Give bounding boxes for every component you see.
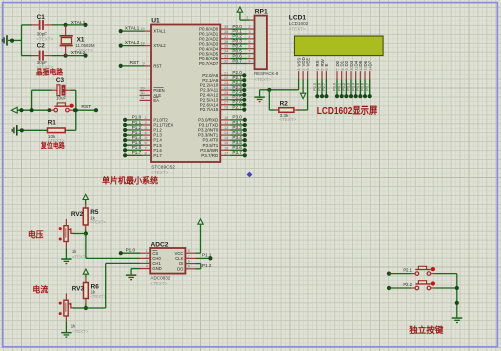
- resistor R5 1k: [83, 208, 106, 225]
- svg-text:4: 4: [248, 35, 250, 39]
- svg-text:8: 8: [340, 69, 344, 71]
- wire (voltage junction down to ADC CH0): [86, 234, 140, 259]
- resistor R2 3.3k: [275, 100, 299, 122]
- pin LCD VSS: [296, 58, 301, 79]
- potentiometer RV2: [59, 211, 89, 259]
- wire (C2 row left): [22, 55, 33, 57]
- power +5V (RP1 supply arrow): [237, 7, 242, 20]
- wire (pin to R6): [85, 278, 87, 283]
- pin LCD RW: [320, 58, 325, 79]
- wire (U1 pin 22 net P2.1): [202, 75, 246, 83]
- pin LCD D5: [358, 60, 363, 79]
- svg-text:<TEXT>: <TEXT>: [75, 48, 92, 53]
- svg-text:P0.7: P0.7: [365, 83, 369, 91]
- wire (R5 to wiper junction): [84, 225, 88, 236]
- svg-text:6: 6: [325, 69, 329, 71]
- svg-text:9: 9: [248, 60, 250, 64]
- pin ADC2 DO: [177, 265, 195, 272]
- svg-text:8: 8: [188, 249, 190, 253]
- svg-text:P2.7: P2.7: [232, 104, 242, 109]
- svg-text:14: 14: [224, 136, 228, 140]
- wire (RV2 bottom to ground): [65, 249, 67, 259]
- svg-text:18: 18: [140, 41, 144, 45]
- wire (U1 pin 13 net P3.3): [198, 130, 247, 138]
- display LCD1 LCD1602: [289, 15, 383, 56]
- wire (ground to crystal left rail): [8, 39, 22, 43]
- wire (ADC CLK to P1.1): [196, 253, 213, 261]
- svg-text:30: 30: [140, 91, 144, 95]
- svg-text:XTAL1: XTAL1: [125, 25, 140, 31]
- svg-text:P0.3: P0.3: [347, 83, 351, 91]
- svg-text:23: 23: [224, 81, 228, 85]
- wire (U1 pin 15 net P3.5): [203, 140, 247, 148]
- svg-text:XTAL1: XTAL1: [153, 29, 166, 34]
- wire (net XTAL1 to U1 pin 19): [119, 25, 167, 33]
- svg-text:LCD1602显示屏: LCD1602显示屏: [317, 105, 378, 117]
- svg-text:21: 21: [224, 71, 228, 75]
- wire (net P1.4 to U1 pin 5): [123, 135, 163, 143]
- svg-text:RST: RST: [130, 60, 140, 66]
- svg-text:P0.1: P0.1: [337, 83, 341, 91]
- svg-text:38: 38: [224, 30, 228, 34]
- svg-text:P2.7/A15: P2.7/A15: [200, 107, 219, 112]
- pin ADC2 CH1: [140, 259, 161, 266]
- svg-text:15: 15: [224, 141, 228, 145]
- svg-text:P3.7: P3.7: [232, 150, 242, 155]
- svg-text:P1.7: P1.7: [132, 150, 142, 155]
- svg-text:P0.4: P0.4: [351, 83, 355, 91]
- wire (button to RST terminal): [73, 108, 98, 112]
- wire (net P1.5 to U1 pin 6): [123, 140, 163, 148]
- wire (U1 pin 39 P0.0 to RP1 pin 2): [199, 24, 254, 32]
- wire (LCD D1 to net P0.1): [337, 79, 344, 98]
- wire (U1 pin 12 net P3.2): [198, 125, 247, 133]
- svg-text:独立按键: 独立按键: [409, 324, 444, 335]
- wire (reset row from arrow to button): [17, 108, 51, 112]
- svg-text:RV2: RV2: [71, 211, 84, 218]
- svg-text:P3.7/RD: P3.7/RD: [201, 153, 219, 158]
- svg-text:1: 1: [144, 116, 146, 120]
- svg-text:电流: 电流: [32, 284, 48, 295]
- wire (U1 pin 28 net P2.7): [200, 104, 247, 112]
- pin ADC2 CH0: [140, 254, 161, 261]
- capacitor C1: [31, 14, 54, 41]
- svg-text:电压: 电压: [28, 229, 44, 239]
- pin LCD D6: [363, 60, 368, 79]
- svg-text:P1.2: P1.2: [202, 263, 212, 268]
- wire (pin to R5): [85, 205, 87, 209]
- wire (R1 to riser): [65, 129, 76, 131]
- IC U1 STC89C52 MCU: [151, 17, 220, 175]
- svg-text:2: 2: [144, 121, 146, 125]
- pin LCD RS: [315, 60, 320, 79]
- wire (C3 loop left riser): [31, 90, 33, 110]
- crystal X1: [60, 25, 95, 56]
- power +5V (R5 supply arrow): [83, 194, 88, 204]
- svg-text:5: 5: [321, 69, 325, 71]
- svg-text:P0.0: P0.0: [333, 83, 337, 91]
- svg-text:U1: U1: [151, 17, 160, 24]
- svg-text:9: 9: [142, 62, 144, 66]
- svg-text:5: 5: [144, 136, 146, 140]
- wire (U1 pin 25 net P2.4): [200, 90, 247, 98]
- wire (U1 pin 33 P0.6 to RP1 pin 8): [199, 53, 254, 61]
- wire (VEE via R2 loop): [269, 79, 307, 110]
- svg-text:27: 27: [224, 101, 228, 105]
- push button (reset): [51, 103, 74, 112]
- svg-text:4: 4: [144, 131, 146, 135]
- pin ADC2 CLK: [175, 254, 195, 261]
- wire (RV2 wiper to junction): [73, 233, 86, 235]
- svg-text:29: 29: [140, 86, 144, 90]
- svg-text:7: 7: [144, 146, 146, 150]
- ground (RV2): [61, 258, 71, 264]
- wire (net XTAL2 to U1 pin 18): [119, 40, 167, 48]
- svg-text:31: 31: [140, 96, 144, 100]
- svg-text:P0.6: P0.6: [361, 83, 365, 91]
- svg-text:单片机最小系统: 单片机最小系统: [102, 174, 158, 185]
- wire (U1 pin 21 net P2.0): [202, 70, 246, 78]
- wire (net P1.0 to U1 pin 1): [123, 115, 168, 123]
- wire (keys common to ground): [455, 274, 459, 318]
- svg-text:ADC0832: ADC0832: [150, 275, 170, 280]
- svg-text:C3: C3: [56, 77, 65, 84]
- power terminal (left arrow on reset row): [11, 107, 17, 113]
- svg-text:RESPACK-8: RESPACK-8: [254, 71, 279, 76]
- svg-text:<TEXT>: <TEXT>: [254, 77, 271, 82]
- svg-text:10uF: 10uF: [56, 96, 67, 101]
- svg-text:D7: D7: [367, 60, 372, 66]
- svg-text:3: 3: [306, 69, 310, 71]
- wire (ADC DI/DO tied to P1.2): [196, 263, 212, 269]
- svg-text:34: 34: [224, 50, 228, 54]
- svg-text:P2.7: P2.7: [322, 83, 326, 91]
- IC ADC2 ADC0832: [150, 241, 185, 286]
- pin LCD D2: [344, 60, 349, 79]
- svg-text:<TEXT>: <TEXT>: [279, 117, 296, 122]
- svg-text:4: 4: [146, 265, 148, 269]
- wire (U1 pin 36 P0.3 to RP1 pin 5): [199, 39, 254, 47]
- wire (RV3 bottom to ground): [65, 322, 67, 332]
- pin LCD D4: [353, 60, 358, 79]
- svg-text:3: 3: [144, 126, 146, 130]
- svg-text:5: 5: [248, 40, 250, 44]
- svg-text:1: 1: [297, 69, 301, 71]
- svg-text:C1: C1: [37, 14, 46, 21]
- pin LCD D1: [339, 60, 344, 79]
- pin ADC2 DI: [179, 260, 195, 267]
- svg-text:6: 6: [248, 45, 250, 49]
- pin ADC2 CS: [140, 249, 158, 256]
- svg-text:35: 35: [224, 45, 228, 49]
- resistor pack RP1 RESPACK-8: [254, 8, 279, 82]
- svg-text:P0.2: P0.2: [342, 83, 346, 91]
- wire (U1 pin 37 P0.2 to RP1 pin 4): [199, 34, 254, 42]
- svg-text:GND: GND: [152, 266, 161, 271]
- svg-text:5: 5: [188, 260, 190, 264]
- pin ADC2 GND: [140, 265, 162, 272]
- svg-text:<TEXT>: <TEXT>: [90, 220, 106, 225]
- wire (LCD D2 to net P0.2): [342, 79, 349, 98]
- potentiometer RV3: [59, 286, 89, 334]
- svg-text:8: 8: [144, 151, 146, 155]
- svg-text:14: 14: [368, 67, 372, 71]
- svg-text:E: E: [324, 64, 329, 67]
- svg-text:36: 36: [224, 40, 228, 44]
- wire (C1 to XTAL1 terminal): [52, 23, 88, 27]
- power +5V (ADC VCC arrow): [198, 219, 203, 253]
- svg-text:P0.7/AD7: P0.7/AD7: [199, 61, 219, 66]
- pin LCD VEE: [305, 58, 310, 79]
- wire (U1 pin 17 net P3.7): [201, 150, 247, 158]
- svg-text:6: 6: [188, 265, 190, 269]
- svg-text:XTAL2: XTAL2: [125, 40, 140, 46]
- svg-text:2: 2: [302, 69, 306, 71]
- svg-text:12: 12: [224, 126, 228, 130]
- svg-text:复位电路: 复位电路: [40, 141, 65, 150]
- svg-text:P0.5: P0.5: [356, 83, 360, 91]
- wire (LCD D4 to net P0.4): [351, 79, 358, 98]
- wire (LCD D7 to net P0.7): [365, 79, 372, 98]
- ground (ADC): [126, 274, 136, 280]
- pin LCD VDD: [301, 57, 306, 79]
- wire (U1 pin 16 net P3.6): [200, 145, 247, 153]
- svg-text:P1.1: P1.1: [202, 253, 212, 258]
- wire (U1 pin 38 P0.1 to RP1 pin 3): [199, 29, 254, 37]
- wire (C1 row left): [22, 24, 33, 26]
- pin LCD D0: [335, 60, 340, 79]
- svg-text:DO: DO: [177, 266, 184, 271]
- svg-text:11: 11: [224, 121, 228, 125]
- wire (RV3 wiper to junction): [73, 307, 86, 309]
- svg-text:P0.7: P0.7: [232, 58, 242, 63]
- wire (U1 pin 10 net P3.0): [198, 115, 247, 123]
- svg-text:XTAL1: XTAL1: [71, 20, 86, 26]
- wire (P1.0 to ADC CS): [119, 247, 140, 255]
- wire (U1 pin 27 net P2.6): [200, 100, 247, 108]
- wire (U1 pin 32 P0.7 to RP1 pin 9): [199, 58, 254, 66]
- node (sheet origin marker): [247, 172, 253, 178]
- push button (P2.1 key): [387, 266, 457, 275]
- svg-text:25: 25: [224, 91, 228, 95]
- wire (ADC VCC to power): [196, 252, 201, 254]
- wire (ADC GND pin to ground): [131, 269, 140, 275]
- ground (RV3): [61, 332, 71, 338]
- svg-text:1: 1: [146, 249, 148, 253]
- svg-text:17: 17: [224, 151, 228, 155]
- wire (net P1.6 to U1 pin 7): [123, 145, 163, 153]
- svg-text:RV3: RV3: [72, 286, 85, 293]
- svg-text:1: 1: [246, 15, 248, 19]
- ground (keys): [452, 317, 462, 323]
- svg-text:3: 3: [248, 30, 250, 34]
- ground (LCD VSS): [254, 96, 264, 102]
- svg-text:2: 2: [248, 25, 250, 29]
- push button (P2.2 key): [387, 281, 457, 290]
- wire (ground to R1): [18, 128, 48, 132]
- capacitor C2: [31, 43, 54, 70]
- wire (net RST to U1 pin 9): [119, 60, 162, 68]
- wire (C3 row right + riser down to R1 row): [71, 90, 76, 130]
- power +5V (R6 supply arrow): [83, 269, 88, 278]
- wire (LCD D5 to net P0.5): [356, 79, 363, 98]
- wire (U1 pin 26 net P2.5): [200, 95, 247, 103]
- svg-text:7: 7: [248, 50, 250, 54]
- resistor R1 10k: [48, 120, 66, 143]
- wire (LCD D3 to net P0.3): [347, 79, 354, 98]
- wire (U1 pin 34 P0.5 to RP1 pin 7): [199, 48, 254, 56]
- svg-text:RST: RST: [153, 64, 162, 69]
- svg-text:39: 39: [224, 25, 228, 29]
- wire (LCD D0 to net P0.0): [333, 79, 340, 98]
- pin 29 U1 PSEN: [140, 86, 165, 93]
- power terminal (LCD VDD down arrow): [300, 79, 305, 99]
- svg-text:C2: C2: [37, 43, 46, 50]
- svg-text:19: 19: [140, 27, 144, 31]
- svg-text:R2: R2: [280, 100, 289, 107]
- wire (C3 row left): [32, 89, 52, 91]
- wire (power to RP1 pin 1): [240, 15, 255, 20]
- svg-text:<TEXT>: <TEXT>: [72, 329, 88, 334]
- svg-text:3: 3: [146, 259, 148, 263]
- svg-text:32: 32: [224, 60, 228, 64]
- pin 30 U1 ALE: [140, 91, 162, 98]
- svg-text:8: 8: [248, 55, 250, 59]
- svg-text:晶振电路: 晶振电路: [36, 66, 63, 76]
- pin LCD D7: [367, 60, 372, 79]
- svg-text:P1.0: P1.0: [126, 247, 136, 252]
- svg-text:37: 37: [224, 35, 228, 39]
- svg-text:26: 26: [224, 96, 228, 100]
- svg-text:XTAL2: XTAL2: [153, 43, 166, 48]
- wire (LCD E to net P2.7): [322, 79, 329, 98]
- svg-text:ADC2: ADC2: [151, 241, 169, 248]
- svg-text:6: 6: [144, 141, 146, 145]
- wire (net P1.3 to U1 pin 4): [123, 130, 163, 138]
- pin 31 U1 EA: [140, 96, 160, 103]
- svg-text:RP1: RP1: [255, 8, 268, 15]
- wire (C2 to XTAL2 terminal): [52, 54, 88, 58]
- wire (R6 to wiper junction): [84, 299, 88, 311]
- wire (LCD VSS to ground rail): [260, 79, 299, 96]
- svg-text:<TEXT>: <TEXT>: [289, 26, 306, 31]
- wire (U1 pin 35 P0.4 to RP1 pin 6): [199, 44, 254, 52]
- svg-text:33: 33: [224, 55, 228, 59]
- svg-text:7: 7: [188, 254, 190, 258]
- svg-text:22: 22: [224, 76, 228, 80]
- svg-text:10: 10: [224, 116, 228, 120]
- svg-text:4: 4: [316, 69, 320, 71]
- wire (net P1.7 to U1 pin 8): [123, 150, 163, 158]
- wire (LCD RS to net P2.5): [313, 79, 320, 98]
- svg-text:P2.6: P2.6: [318, 83, 322, 91]
- wire (LCD D6 to net P0.6): [361, 79, 368, 98]
- wire (U1 pin 14 net P3.4): [203, 135, 247, 143]
- svg-text:9: 9: [345, 69, 349, 71]
- pin LCD D3: [349, 60, 354, 79]
- wire (net P1.1 to U1 pin 2): [123, 120, 173, 128]
- svg-text:<TEXT>: <TEXT>: [90, 294, 106, 299]
- svg-text:28: 28: [224, 106, 228, 110]
- ground (reset circuit R1 row): [12, 125, 18, 135]
- wire (U1 pin 11 net P3.1): [199, 120, 247, 128]
- wire (U1 pin 24 net P2.3): [200, 85, 246, 93]
- ground (crystal circuit left terminal): [2, 35, 8, 45]
- svg-text:P2.5: P2.5: [313, 83, 317, 91]
- svg-text:R1: R1: [48, 120, 57, 127]
- svg-text:EA: EA: [153, 98, 159, 103]
- resistor R6 1k: [84, 283, 107, 299]
- wire (current junction to ADC CH1): [86, 263, 140, 308]
- svg-text:<TEXT>: <TEXT>: [36, 37, 53, 42]
- capacitor C3 (electrolytic 10uF): [51, 77, 71, 100]
- svg-text:7: 7: [336, 69, 340, 71]
- svg-text:16: 16: [224, 146, 228, 150]
- svg-text:RST: RST: [81, 104, 91, 110]
- svg-text:13: 13: [224, 131, 228, 135]
- wire (LCD RW to net P2.6): [318, 79, 325, 98]
- wire (net P1.2 to U1 pin 3): [123, 125, 163, 133]
- svg-text:<TEXT>: <TEXT>: [150, 281, 167, 286]
- svg-text:VEE: VEE: [305, 58, 310, 67]
- pin LCD E: [324, 64, 329, 80]
- wire (left rail joining C1 and C2): [21, 25, 23, 56]
- wire (U1 pin 23 net P2.2): [200, 80, 247, 88]
- pin ADC2 VCC: [175, 249, 196, 256]
- svg-text:P2.1: P2.1: [403, 267, 412, 272]
- svg-text:24: 24: [224, 86, 228, 90]
- svg-text:2: 2: [146, 254, 148, 258]
- svg-text:P1.7: P1.7: [153, 153, 162, 158]
- svg-text:P2.2: P2.2: [403, 282, 412, 287]
